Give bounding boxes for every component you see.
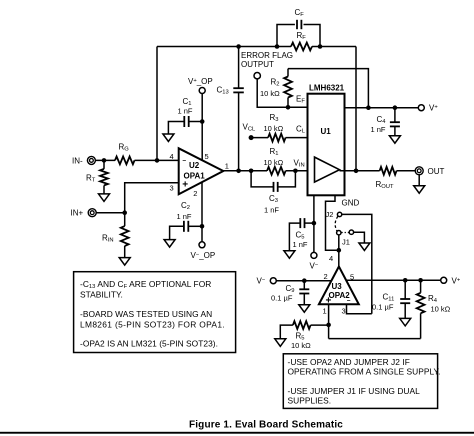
svg-text:C3: C3 [269,194,278,204]
svg-text:0.1 µF: 0.1 µF [271,294,293,303]
resistor R1 [267,167,286,175]
terminal V- left [270,278,276,284]
svg-text:VCL: VCL [243,122,257,132]
wire J1 right to ground [354,232,365,243]
svg-text:V+: V+ [452,276,461,285]
ground OUT [414,174,425,193]
junction RIN tap [122,210,127,215]
capacitor C3 [251,171,295,192]
svg-text:2: 2 [324,272,328,281]
svg-text:-USE OPA2 AND JUMPER J2 IF: -USE OPA2 AND JUMPER J2 IF [288,357,410,367]
svg-text:OUTPUT: OUTPUT [241,60,274,69]
svg-text:RF: RF [297,31,307,41]
wire IN+ to junction [96,212,125,214]
svg-text:1 nF: 1 nF [177,212,192,221]
wire IN- to RG [95,159,115,161]
terminal V-_OP [199,242,205,248]
resistor RF [291,43,312,51]
jumper J2 shunt arc [335,216,338,231]
ground C1 [163,134,174,142]
capacitor C4 [390,108,400,136]
svg-text:STABILITY.: STABILITY. [80,289,123,299]
svg-text:IN+: IN+ [71,209,84,218]
svg-text:OUT: OUT [428,167,445,176]
resistor RIN [121,213,129,258]
capacitor C11 [400,280,410,318]
svg-text:10 kΩ: 10 kΩ [264,158,284,167]
svg-text:R3: R3 [270,113,279,123]
svg-text:J1: J1 [342,237,350,246]
ground R5 [275,339,286,347]
wire junction up to U2 pin3 [125,183,179,213]
wire J1 left to GND node [338,235,340,250]
svg-text:-OPA2 IS AN LM321 (5-PIN SOT23: -OPA2 IS AN LM321 (5-PIN SOT23). [80,339,218,349]
svg-text:RG: RG [119,142,130,152]
svg-text:CL: CL [296,124,306,134]
svg-text:3: 3 [342,306,346,315]
svg-text:GND: GND [342,198,360,207]
capacitor CF [277,20,320,47]
svg-text:1: 1 [225,161,229,170]
svg-text:2: 2 [193,189,197,198]
junction CF right [318,44,323,49]
svg-text:ERROR FLAG: ERROR FLAG [241,51,293,60]
note box left [74,272,236,353]
wire U3 pin5 rail [347,279,441,281]
jumper J1 right [349,230,353,234]
svg-text:V+: V+ [429,104,438,113]
capacitor C9 [299,281,309,305]
svg-text:OPERATING FROM A SINGLE SUPPLY: OPERATING FROM A SINGLE SUPPLY. [288,367,441,377]
wire U3 pin4 [338,250,340,266]
svg-text:R1: R1 [270,147,279,157]
svg-text:-USE JUMPER J1 IF USING DUAL: -USE JUMPER J1 IF USING DUAL [288,386,421,396]
resistor R4 [417,280,425,338]
ground C2 [164,240,175,248]
svg-text:Figure 1. Eval Board Schematic: Figure 1. Eval Board Schematic [189,420,343,431]
junction C4 tap [393,105,398,110]
ground C9 [299,305,310,313]
svg-text:V−_OP: V−_OP [191,251,216,260]
svg-text:V−: V− [310,262,319,271]
svg-text:C11: C11 [383,293,395,303]
jumper J2 [337,212,341,216]
svg-text:U2: U2 [189,161,200,170]
junction GND node [337,248,342,253]
terminal V+ top [418,105,424,111]
terminal VCL [249,135,254,140]
junction R2 bottom [286,105,291,110]
svg-text:IN-: IN- [72,156,83,165]
ground RIN [119,258,130,266]
terminal ERROR FLAG [254,73,260,79]
jumper J1 left [337,231,341,235]
wire VCL to R3 [251,137,268,139]
wire U2 output [223,170,267,172]
junction R1 left [249,169,254,174]
terminal IN- [87,156,95,164]
svg-text:10 kΩ: 10 kΩ [291,341,311,350]
junction output/C13 [236,169,241,174]
svg-text:-BOARD WAS TESTED USING AN: -BOARD WAS TESTED USING AN [80,309,212,319]
junction C11 tap [403,278,408,283]
svg-text:10 kΩ: 10 kΩ [260,89,280,98]
wire U1 V+ [345,107,419,109]
svg-text:10 kΩ: 10 kΩ [431,305,451,314]
wire feedback left drop to U2 pin4 node [156,47,158,161]
svg-text:1 nF: 1 nF [293,240,308,249]
wire bottom return [329,338,421,340]
svg-text:0.1 µF: 0.1 µF [372,303,394,312]
svg-text:SUPPLIES.: SUPPLIES. [288,395,332,405]
junction C2 tap [200,224,205,229]
svg-text:3: 3 [170,183,174,192]
svg-text:RIN: RIN [102,234,114,244]
svg-text:10 kΩ: 10 kΩ [264,124,284,133]
note box right [283,354,437,409]
svg-text:4: 4 [329,254,333,263]
wire R1 to U1 [286,170,315,172]
svg-text:U3: U3 [332,282,343,291]
svg-text:5: 5 [205,152,209,161]
svg-text:−: − [347,297,351,304]
resistor RT [100,160,108,194]
svg-text:J2: J2 [326,210,334,219]
capacitor C2 [170,221,202,240]
wire R3 to U1 [286,137,308,139]
wire U1 output [340,170,380,172]
svg-text:LM8261 (5-PIN SOT23) FOR OPA1.: LM8261 (5-PIN SOT23) FOR OPA1. [80,319,225,329]
terminal V+ right [441,277,447,283]
svg-text:1 nF: 1 nF [178,107,193,116]
svg-text:C2: C2 [181,201,190,211]
resistor R5 [280,321,328,339]
terminal IN+ [88,209,96,217]
capacitor C13 [233,47,244,171]
wire ROUT to OUT [397,170,416,172]
svg-text:−: − [182,158,186,165]
svg-text:VIN: VIN [294,158,305,168]
svg-text:LMH6321: LMH6321 [309,84,345,93]
ground J1 [359,243,370,251]
wire EF [257,79,307,107]
svg-text:4: 4 [170,152,174,161]
junction R4 tap [418,278,423,283]
wire pin5 [201,94,203,162]
ground C4 [389,136,400,144]
wire U3 pin1 [328,304,330,338]
terminal V- U1 [311,252,317,258]
wire U1 GND pin [326,195,337,250]
wire V- rail [276,280,331,282]
junction C13 branch [236,44,241,49]
capacitor C1 [168,116,202,134]
svg-text:V−: V− [257,277,266,286]
wire RG to U2 pin4 [135,159,179,161]
junction CF left [275,44,280,49]
svg-text:R4: R4 [428,294,438,304]
svg-text:CF: CF [295,8,305,18]
svg-text:EF: EF [296,95,305,105]
svg-text:V+_OP: V+_OP [188,77,213,86]
wire feedback right drop to output node [355,47,357,171]
wire U3 pin3 feedback [347,304,372,314]
svg-text:C4: C4 [377,115,387,125]
junction C1 tap [200,119,205,124]
rule bottom [0,432,474,434]
junction R1 right [293,169,298,174]
svg-text:ROUT: ROUT [376,180,394,190]
svg-text:-C13 AND CF ARE OPTIONAL FOR: -C13 AND CF ARE OPTIONAL FOR [80,279,211,290]
junction C9 tap [302,278,307,283]
op-amp U3 OPA2 [319,267,359,307]
svg-text:R2: R2 [271,78,280,88]
wire RF to right corner [312,46,356,48]
junction R5 node [326,323,331,328]
resistor R2 [284,69,292,108]
wire U1 V- pin [313,195,315,252]
wire R2 top to V+ rail [288,69,368,108]
terminal OUT [415,167,423,175]
capacitor C5 [289,218,314,251]
svg-text:U1: U1 [321,127,332,136]
svg-text:1 nF: 1 nF [371,125,386,134]
junction feedback/output [354,169,359,174]
wire J2 to pin3 net [342,214,372,313]
svg-text:1 nF: 1 nF [264,206,279,215]
junction R2 rail [366,105,371,110]
op-amp U1 LMH6321 [308,94,345,196]
ground RT [99,194,110,202]
wire pin2 [201,182,203,242]
svg-text:+: + [182,180,188,191]
svg-text:RT: RT [86,174,96,184]
resistor ROUT [380,167,397,175]
resistor RG [115,157,135,165]
ground C11 [400,318,411,326]
terminal V+_OP [199,88,205,94]
op-amp U2 OPA1 [179,148,224,194]
jumper J1 shunt dots [341,232,349,234]
wire top feedback bus [157,46,291,48]
svg-text:C13: C13 [217,86,229,96]
junction RT tap [102,158,107,163]
svg-text:1: 1 [323,306,327,315]
junction feedback tap [155,158,160,163]
resistor R3 [268,134,286,142]
junction C5 tap [312,221,317,226]
ground C5 [284,251,295,259]
